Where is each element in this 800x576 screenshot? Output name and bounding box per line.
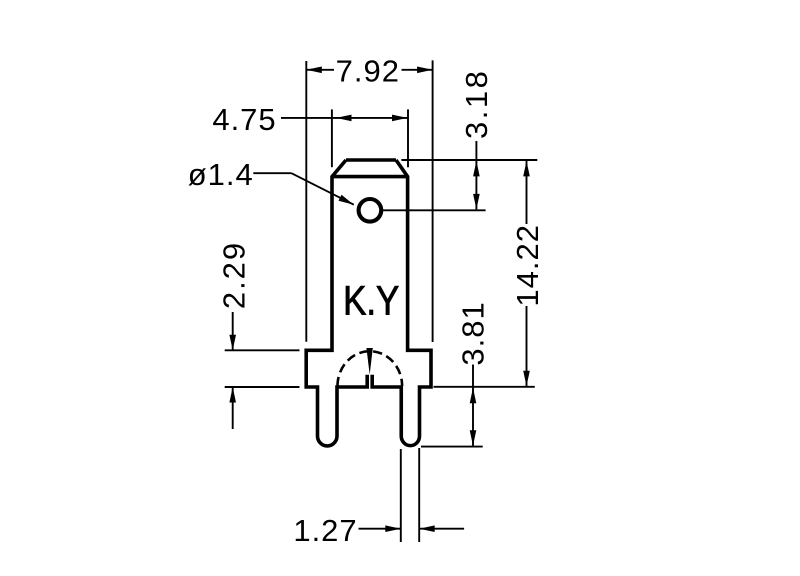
svg-text:3.81: 3.81 — [455, 301, 490, 365]
svg-text:7.92: 7.92 — [336, 53, 400, 88]
svg-text:3.18: 3.18 — [459, 69, 494, 139]
svg-text:1.27: 1.27 — [293, 513, 357, 548]
svg-text:4.75: 4.75 — [212, 102, 276, 137]
svg-text:ø1.4: ø1.4 — [188, 157, 254, 192]
svg-text:K.Y: K.Y — [343, 279, 399, 324]
svg-text:14.22: 14.22 — [510, 224, 545, 307]
svg-text:2.29: 2.29 — [217, 241, 252, 309]
